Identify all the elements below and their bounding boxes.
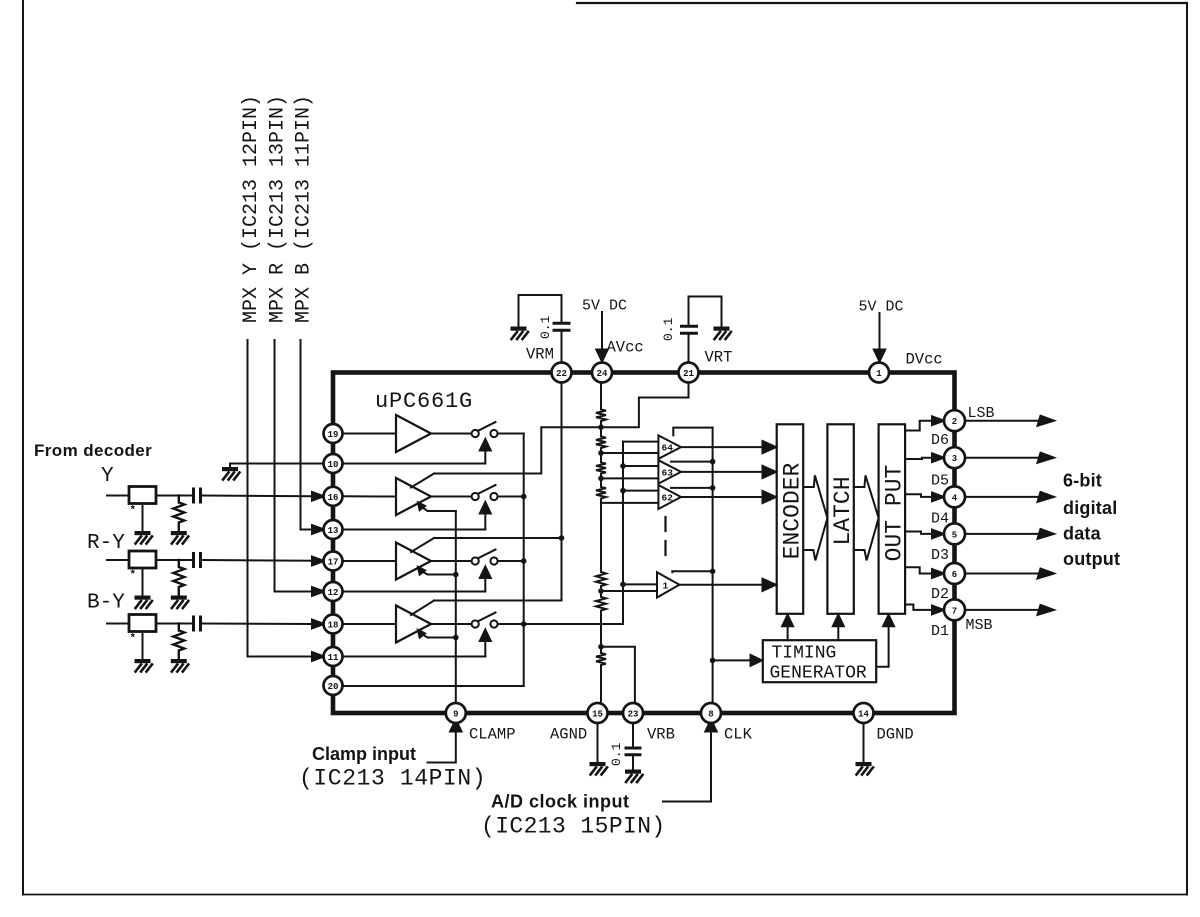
svg-text:MPX B (IC213 11PIN): MPX B (IC213 11PIN)	[293, 95, 316, 323]
svg-text:Clamp input: Clamp input	[312, 744, 416, 764]
wire decoder ground to pin10	[230, 463, 324, 465]
wire pin21 staircase to ladder tap A	[601, 383, 689, 427]
comparator 1 clock wire	[672, 571, 712, 572]
arrowhead into pin24	[596, 350, 607, 362]
wire S1 control to pin10 row	[484, 451, 486, 464]
signal distribution column	[622, 442, 624, 624]
wire A3 output to switch S3	[431, 560, 472, 562]
svg-text:ENCODER: ENCODER	[780, 462, 806, 559]
wire A1 output to switch S1	[431, 433, 472, 435]
arrowhead output D1	[1038, 605, 1055, 615]
wire pin22 up to capacitor C1	[561, 331, 563, 363]
wire A3 clamp to clamp bus	[420, 570, 456, 575]
junction ladder tap B	[598, 450, 604, 456]
junction VRM A3	[559, 535, 565, 541]
svg-text:12: 12	[328, 588, 339, 598]
junction bus S2	[521, 494, 527, 500]
svg-text:18: 18	[328, 621, 339, 631]
TIMING GENERATOR block	[763, 640, 876, 682]
page border frame (bottom)	[23, 894, 1187, 896]
arrowhead output D2	[1038, 569, 1055, 579]
pin 4	[944, 486, 965, 507]
pin 16	[324, 487, 343, 506]
wire tap D to comparator 62	[601, 502, 658, 504]
wire A2 diagonal staircase to ladder tap A	[434, 427, 601, 473]
wire pin16 to amp A2 input	[343, 495, 397, 497]
pin 12	[324, 582, 343, 601]
svg-text:2: 2	[952, 417, 957, 427]
timing arrow to encoder	[787, 625, 789, 641]
wire C3 to ground	[632, 755, 634, 769]
ground at resistor R-Y3	[171, 659, 189, 672]
wire R-Y input to delay box	[107, 559, 129, 561]
ellipsis dashed line between comparators	[664, 517, 666, 556]
wire out put to pin6	[905, 567, 934, 573]
wire pin11 to S4 control	[343, 656, 486, 658]
wire distribution to comparator 63	[623, 465, 658, 467]
svg-text:GENERATOR: GENERATOR	[770, 664, 867, 684]
wire pin23 down to capacitor C3	[632, 724, 634, 748]
comparator 64 clock wire	[673, 428, 712, 436]
wire S1 output to bus	[498, 433, 524, 435]
wire pin2 output D6	[965, 420, 1042, 422]
ground at decoder reference	[222, 467, 240, 480]
wire S3 output to bus	[498, 560, 524, 562]
svg-text:D2: D2	[931, 586, 949, 603]
wire A3 diagonal to VRM column	[434, 537, 562, 539]
junction ladder tap E	[598, 588, 604, 594]
wire 5V DC arrow to pin1 DVcc	[879, 313, 881, 351]
arrowhead comp1 into encoder	[763, 579, 777, 591]
svg-text:D1: D1	[931, 623, 949, 640]
svg-text:0.1: 0.1	[538, 315, 553, 339]
capacitor C2 (0.1) at VRT	[682, 326, 697, 333]
svg-text:VRB: VRB	[647, 726, 675, 744]
reference resistor ladder (R1-R7)	[596, 375, 606, 704]
svg-text:20: 20	[328, 682, 339, 692]
arrowhead into pin1	[874, 350, 885, 362]
wire distribution to comparator 62	[623, 490, 658, 492]
switch S3	[472, 550, 498, 565]
svg-text:4: 4	[952, 493, 958, 503]
wire 5V DC arrow to pin24 AVcc	[601, 312, 603, 351]
wire S3 control to pin12 row	[484, 578, 486, 592]
wire pin18 to amp A4 input	[343, 623, 397, 625]
page border frame (right)	[1186, 3, 1188, 895]
wire tap C to comparator 63	[601, 477, 658, 479]
svg-text:A/D clock input: A/D clock input	[491, 792, 630, 812]
wire A4 diagonal to VRM column	[434, 600, 562, 602]
arrowhead into pin12	[312, 587, 324, 596]
A3 feedback diagonal	[411, 538, 434, 552]
svg-text:1: 1	[876, 369, 882, 379]
svg-text:16: 16	[328, 493, 339, 503]
svg-text:0.1: 0.1	[609, 742, 624, 766]
ground at pin14 DGND	[856, 762, 874, 775]
wire comparator 64 output to encoder	[681, 446, 767, 448]
pin 8	[701, 703, 721, 723]
stem B-Y box to ground	[142, 632, 144, 660]
S3 control arrow	[480, 567, 491, 579]
svg-text:8: 8	[708, 710, 713, 720]
wire comparator 62 output to encoder	[681, 496, 767, 498]
page border frame (left)	[22, 0, 24, 895]
pin 7	[944, 599, 965, 620]
comparator 64	[658, 435, 681, 458]
svg-text:3: 3	[952, 454, 957, 464]
pin 14	[854, 703, 874, 723]
svg-text:(IC213 14PIN): (IC213 14PIN)	[299, 766, 486, 792]
wire C1 top to ground	[519, 295, 562, 326]
pin 15	[588, 703, 608, 723]
capacitor C3 (0.1) at VRB	[626, 748, 640, 755]
capacitor C5 (coupling) R-Y	[194, 554, 201, 567]
svg-text:output: output	[1063, 549, 1120, 569]
stem R-Y box to ground	[142, 568, 144, 596]
svg-text:VRM: VRM	[526, 346, 554, 364]
timing arrow to latch	[837, 625, 839, 641]
wire comparator 63 output to encoder	[681, 471, 767, 473]
wire A/D clock input to pin8	[663, 732, 711, 802]
arrowhead into pin2	[932, 416, 944, 425]
stem decoder ground	[229, 464, 231, 468]
svg-text:23: 23	[628, 710, 639, 720]
wire pin3 output D5	[965, 457, 1042, 459]
arrowhead into pin8 clk	[705, 720, 716, 732]
svg-text:13: 13	[328, 526, 339, 536]
junction clk comp62	[710, 485, 716, 491]
junction distribution comp62	[620, 488, 626, 494]
arrowhead into pin3	[932, 453, 944, 462]
ground at pin15 AGND	[590, 762, 608, 775]
wire distribution to comparator 1	[623, 583, 657, 585]
svg-text:5V DC: 5V DC	[582, 298, 627, 315]
ground at VRT capacitor	[714, 327, 732, 340]
wire pin6 output D2	[965, 573, 1042, 575]
junction clk comp63	[710, 459, 716, 465]
stem Y box to ground	[142, 504, 144, 532]
svg-text:17: 17	[328, 558, 339, 568]
arrowhead into timing generator	[751, 655, 763, 666]
svg-text:7: 7	[952, 606, 957, 616]
svg-text:R-Y: R-Y	[87, 532, 125, 555]
A2 feedback diagonal	[411, 474, 434, 488]
pin 11	[324, 647, 343, 666]
wire out put to pin7	[905, 605, 934, 610]
A2 clamp arrowhead	[413, 497, 427, 511]
wire out put to pin3	[905, 458, 934, 459]
comparator 63 clock wire	[671, 461, 713, 463]
A3 clamp arrowhead	[413, 562, 427, 576]
switch S4	[472, 613, 498, 628]
wire pin14 to ground DGND	[863, 724, 865, 763]
ground at R-Y box	[135, 596, 153, 609]
arrowhead output D5	[1038, 453, 1055, 463]
junction A3 clamp	[453, 572, 459, 578]
svg-text:CLK: CLK	[724, 726, 753, 744]
svg-text:AGND: AGND	[550, 726, 587, 744]
svg-text:DGND: DGND	[877, 726, 914, 744]
svg-text:Y: Y	[101, 465, 114, 488]
resistor R-Y2 to ground	[173, 560, 184, 596]
op-amp A3	[396, 543, 431, 580]
wire C6 to pin18	[202, 623, 313, 626]
arrowhead into pin4	[932, 493, 944, 502]
svg-text:B-Y: B-Y	[87, 592, 125, 615]
pin 20	[324, 676, 343, 695]
wire A2 clamp to clamp bus	[420, 506, 456, 512]
wire S4 control to pin11 row	[484, 641, 486, 657]
arrowhead into pin18	[312, 620, 324, 629]
wire B-Y input to delay box	[107, 623, 129, 625]
arrowhead output D3	[1038, 529, 1055, 539]
A4 clamp arrowhead	[413, 625, 427, 639]
svg-text:OUT PUT: OUT PUT	[881, 465, 907, 562]
wire pin5 output D3	[965, 533, 1042, 535]
svg-text:TIMING: TIMING	[772, 644, 837, 664]
VRM column from pin22	[561, 383, 563, 601]
pin 13	[324, 520, 343, 539]
wire C2 top to ground	[689, 297, 722, 327]
timing arrow to out put	[876, 625, 888, 667]
wire C4 to pin16	[202, 495, 313, 498]
op-amp A2	[396, 478, 431, 515]
ground at C3	[625, 770, 643, 783]
pin 18	[324, 615, 343, 634]
junction ladder tap A	[598, 424, 604, 430]
wire clk to timing generator	[713, 659, 754, 661]
pin 5	[944, 523, 965, 544]
wire bus to pin20	[343, 685, 524, 687]
svg-text:21: 21	[683, 369, 694, 379]
capacitor C6 (coupling) B-Y	[194, 617, 201, 630]
bus arrow latch to out put	[854, 475, 879, 560]
wire clamp input to pin9	[428, 732, 456, 763]
arrowhead into pin5	[932, 530, 944, 539]
ground at resistor R-Y2	[171, 596, 189, 609]
arrowhead into pin16	[312, 492, 324, 501]
svg-text:MPX R (IC213 13PIN): MPX R (IC213 13PIN)	[267, 95, 290, 323]
LATCH block	[827, 424, 853, 614]
svg-text:11: 11	[328, 653, 339, 663]
wire out put to pin5	[905, 532, 934, 534]
svg-text:5V DC: 5V DC	[859, 299, 904, 316]
op-amp A4	[396, 606, 431, 643]
arrowhead comp63 into encoder	[763, 466, 777, 478]
svg-text:0.1: 0.1	[661, 317, 676, 341]
wire C5 to pin17	[202, 559, 313, 562]
capacitor C1 (0.1) at VRM	[554, 323, 569, 330]
wire out put to pin4	[905, 494, 934, 497]
svg-text:From decoder: From decoder	[34, 441, 152, 460]
capacitor C4 (coupling) Y	[194, 489, 201, 502]
wire out put to pin2	[905, 421, 934, 431]
pin 6	[944, 563, 965, 584]
switch output bus vertical	[523, 434, 525, 687]
svg-text:1: 1	[663, 580, 669, 591]
svg-text:6-bit: 6-bit	[1063, 471, 1102, 491]
svg-text:digital: digital	[1063, 498, 1117, 518]
ENCODER block	[777, 424, 804, 614]
pin 23	[623, 703, 643, 723]
svg-text:*: *	[130, 505, 137, 517]
wire A4 output to switch S4	[431, 623, 472, 625]
junction distribution comp63	[620, 463, 626, 469]
pin 3	[944, 447, 965, 468]
svg-text:data: data	[1063, 524, 1102, 544]
wire A4 clamp to clamp bus	[420, 633, 456, 638]
switch S1	[472, 422, 498, 437]
wire S2 output to bus	[498, 496, 524, 498]
arrowhead output D6	[1038, 416, 1055, 426]
svg-text:15: 15	[592, 710, 603, 720]
pin 17	[324, 552, 343, 571]
svg-text:6: 6	[952, 570, 957, 580]
junction clk timing branch	[710, 658, 716, 664]
resistor R-Y3 to ground	[173, 624, 184, 660]
svg-text:(IC213 15PIN): (IC213 15PIN)	[481, 814, 666, 840]
wire pin15 to ground AGND	[597, 724, 599, 763]
wire tap F to pin23 VRB	[601, 647, 635, 704]
svg-text:VRT: VRT	[705, 349, 733, 367]
S1 control arrow	[480, 439, 491, 451]
wire S4 output to signal distribution column	[498, 623, 623, 625]
arrowhead output D4	[1038, 492, 1055, 502]
comparator 1	[657, 572, 679, 597]
bus arrow encoder to latch	[803, 475, 827, 560]
wire A2 output to switch S2	[431, 496, 472, 498]
IC U1 uPC661G outline	[333, 373, 955, 714]
svg-text:24: 24	[597, 369, 608, 379]
delay component box Y	[129, 487, 156, 504]
svg-text:LSB: LSB	[968, 405, 995, 422]
wire MPX B to pin13	[301, 340, 314, 530]
pin 1	[869, 363, 889, 383]
wire pin13 to S2 control	[343, 529, 486, 531]
arrowhead into pin13	[312, 525, 324, 534]
svg-text:5: 5	[952, 530, 957, 540]
delay component box R-Y	[129, 551, 156, 568]
junction A4 clamp	[453, 635, 459, 641]
S4 control arrow	[480, 630, 491, 642]
junction clk comp1	[710, 569, 716, 575]
svg-text:9: 9	[453, 710, 458, 720]
wire pin10 to S1 control	[343, 463, 486, 465]
wire S2 control to pin13 row	[484, 514, 486, 530]
clamp bus vertical from pin9	[455, 511, 457, 704]
wire comparator 1 output to encoder	[679, 584, 766, 586]
svg-text:19: 19	[328, 430, 339, 440]
svg-text:CLAMP: CLAMP	[469, 726, 516, 744]
delay component box B-Y	[129, 615, 156, 632]
pin 21	[679, 363, 699, 383]
op-amp A1	[396, 415, 431, 452]
svg-text:D6: D6	[931, 432, 949, 449]
switch S2	[472, 485, 498, 500]
ground at Y box	[135, 531, 153, 544]
pin 22	[552, 363, 572, 383]
wire pin17 to amp A3 input	[343, 560, 397, 562]
wire tap B to comparator 64	[601, 452, 658, 454]
page border frame (top, partial)	[577, 2, 1187, 4]
wire B-Y box to capacitor C6	[156, 623, 192, 625]
svg-text:*: *	[130, 570, 137, 582]
junction distribution comp1	[620, 582, 626, 588]
wire pin7 output D1	[965, 609, 1042, 611]
svg-text:uPC661G: uPC661G	[375, 389, 473, 414]
OUT PUT block	[879, 424, 906, 614]
pin 19	[324, 424, 343, 443]
arrowhead into pin9 clamp	[450, 720, 461, 732]
wire MPX R to pin12	[275, 340, 314, 592]
junction ladder tap C	[598, 476, 604, 482]
svg-text:DVcc: DVcc	[906, 351, 943, 369]
wire MPX Y to pin11	[248, 340, 314, 657]
svg-text:10: 10	[328, 460, 339, 470]
svg-text:63: 63	[662, 467, 674, 478]
arrowhead into pin6	[932, 569, 944, 578]
wire tap E to comparator 1	[601, 590, 657, 592]
wire R-Y box to capacitor C5	[156, 559, 192, 561]
resistor R-Y1 to ground	[173, 496, 184, 532]
wire pin19 to amp A1 input	[343, 433, 397, 435]
svg-text:MSB: MSB	[966, 617, 993, 634]
pin 10	[324, 454, 343, 473]
S2 control arrow	[480, 502, 491, 514]
pin 9	[446, 703, 466, 723]
svg-text:64: 64	[662, 443, 674, 454]
ground at B-Y box	[135, 659, 153, 672]
svg-text:*: *	[130, 633, 137, 645]
junction ladder tap F (VRB)	[598, 644, 604, 650]
ground at VRM capacitor	[511, 327, 529, 340]
arrowhead comp64 into encoder	[763, 441, 777, 453]
svg-text:AVcc: AVcc	[607, 339, 644, 357]
arrowhead into pin17	[312, 557, 324, 566]
wire pin4 output D4	[965, 496, 1042, 498]
pin 2	[944, 410, 965, 431]
A4 feedback diagonal	[411, 601, 434, 616]
wire Y input to delay box	[107, 495, 129, 497]
arrowhead into pin7	[932, 606, 944, 615]
wire distribution to comparator 64	[623, 441, 658, 443]
wire pin12 to S3 control	[343, 591, 486, 593]
comparator 62 clock wire	[671, 487, 713, 489]
wire Y box to capacitor C4	[156, 495, 192, 497]
svg-text:D3: D3	[931, 547, 949, 564]
svg-text:62: 62	[662, 492, 674, 503]
svg-text:D4: D4	[931, 511, 949, 528]
junction bus S3	[521, 558, 527, 564]
svg-text:MPX Y (IC213 12PIN): MPX Y (IC213 12PIN)	[240, 95, 263, 323]
svg-text:14: 14	[858, 710, 869, 720]
arrowhead into pin11	[312, 652, 324, 661]
comparator 62	[658, 485, 681, 509]
svg-text:22: 22	[556, 369, 567, 379]
junction bus S4	[521, 621, 527, 627]
ground at resistor R-Y1	[171, 531, 189, 544]
arrowhead comp62 into encoder	[763, 491, 777, 503]
wire pin21 up to capacitor C2	[688, 334, 690, 363]
comparator 63	[658, 460, 681, 483]
pin 24	[592, 363, 612, 383]
svg-text:D5: D5	[931, 473, 949, 490]
CLK column from pin8	[712, 428, 714, 704]
svg-text:LATCH: LATCH	[830, 476, 856, 545]
